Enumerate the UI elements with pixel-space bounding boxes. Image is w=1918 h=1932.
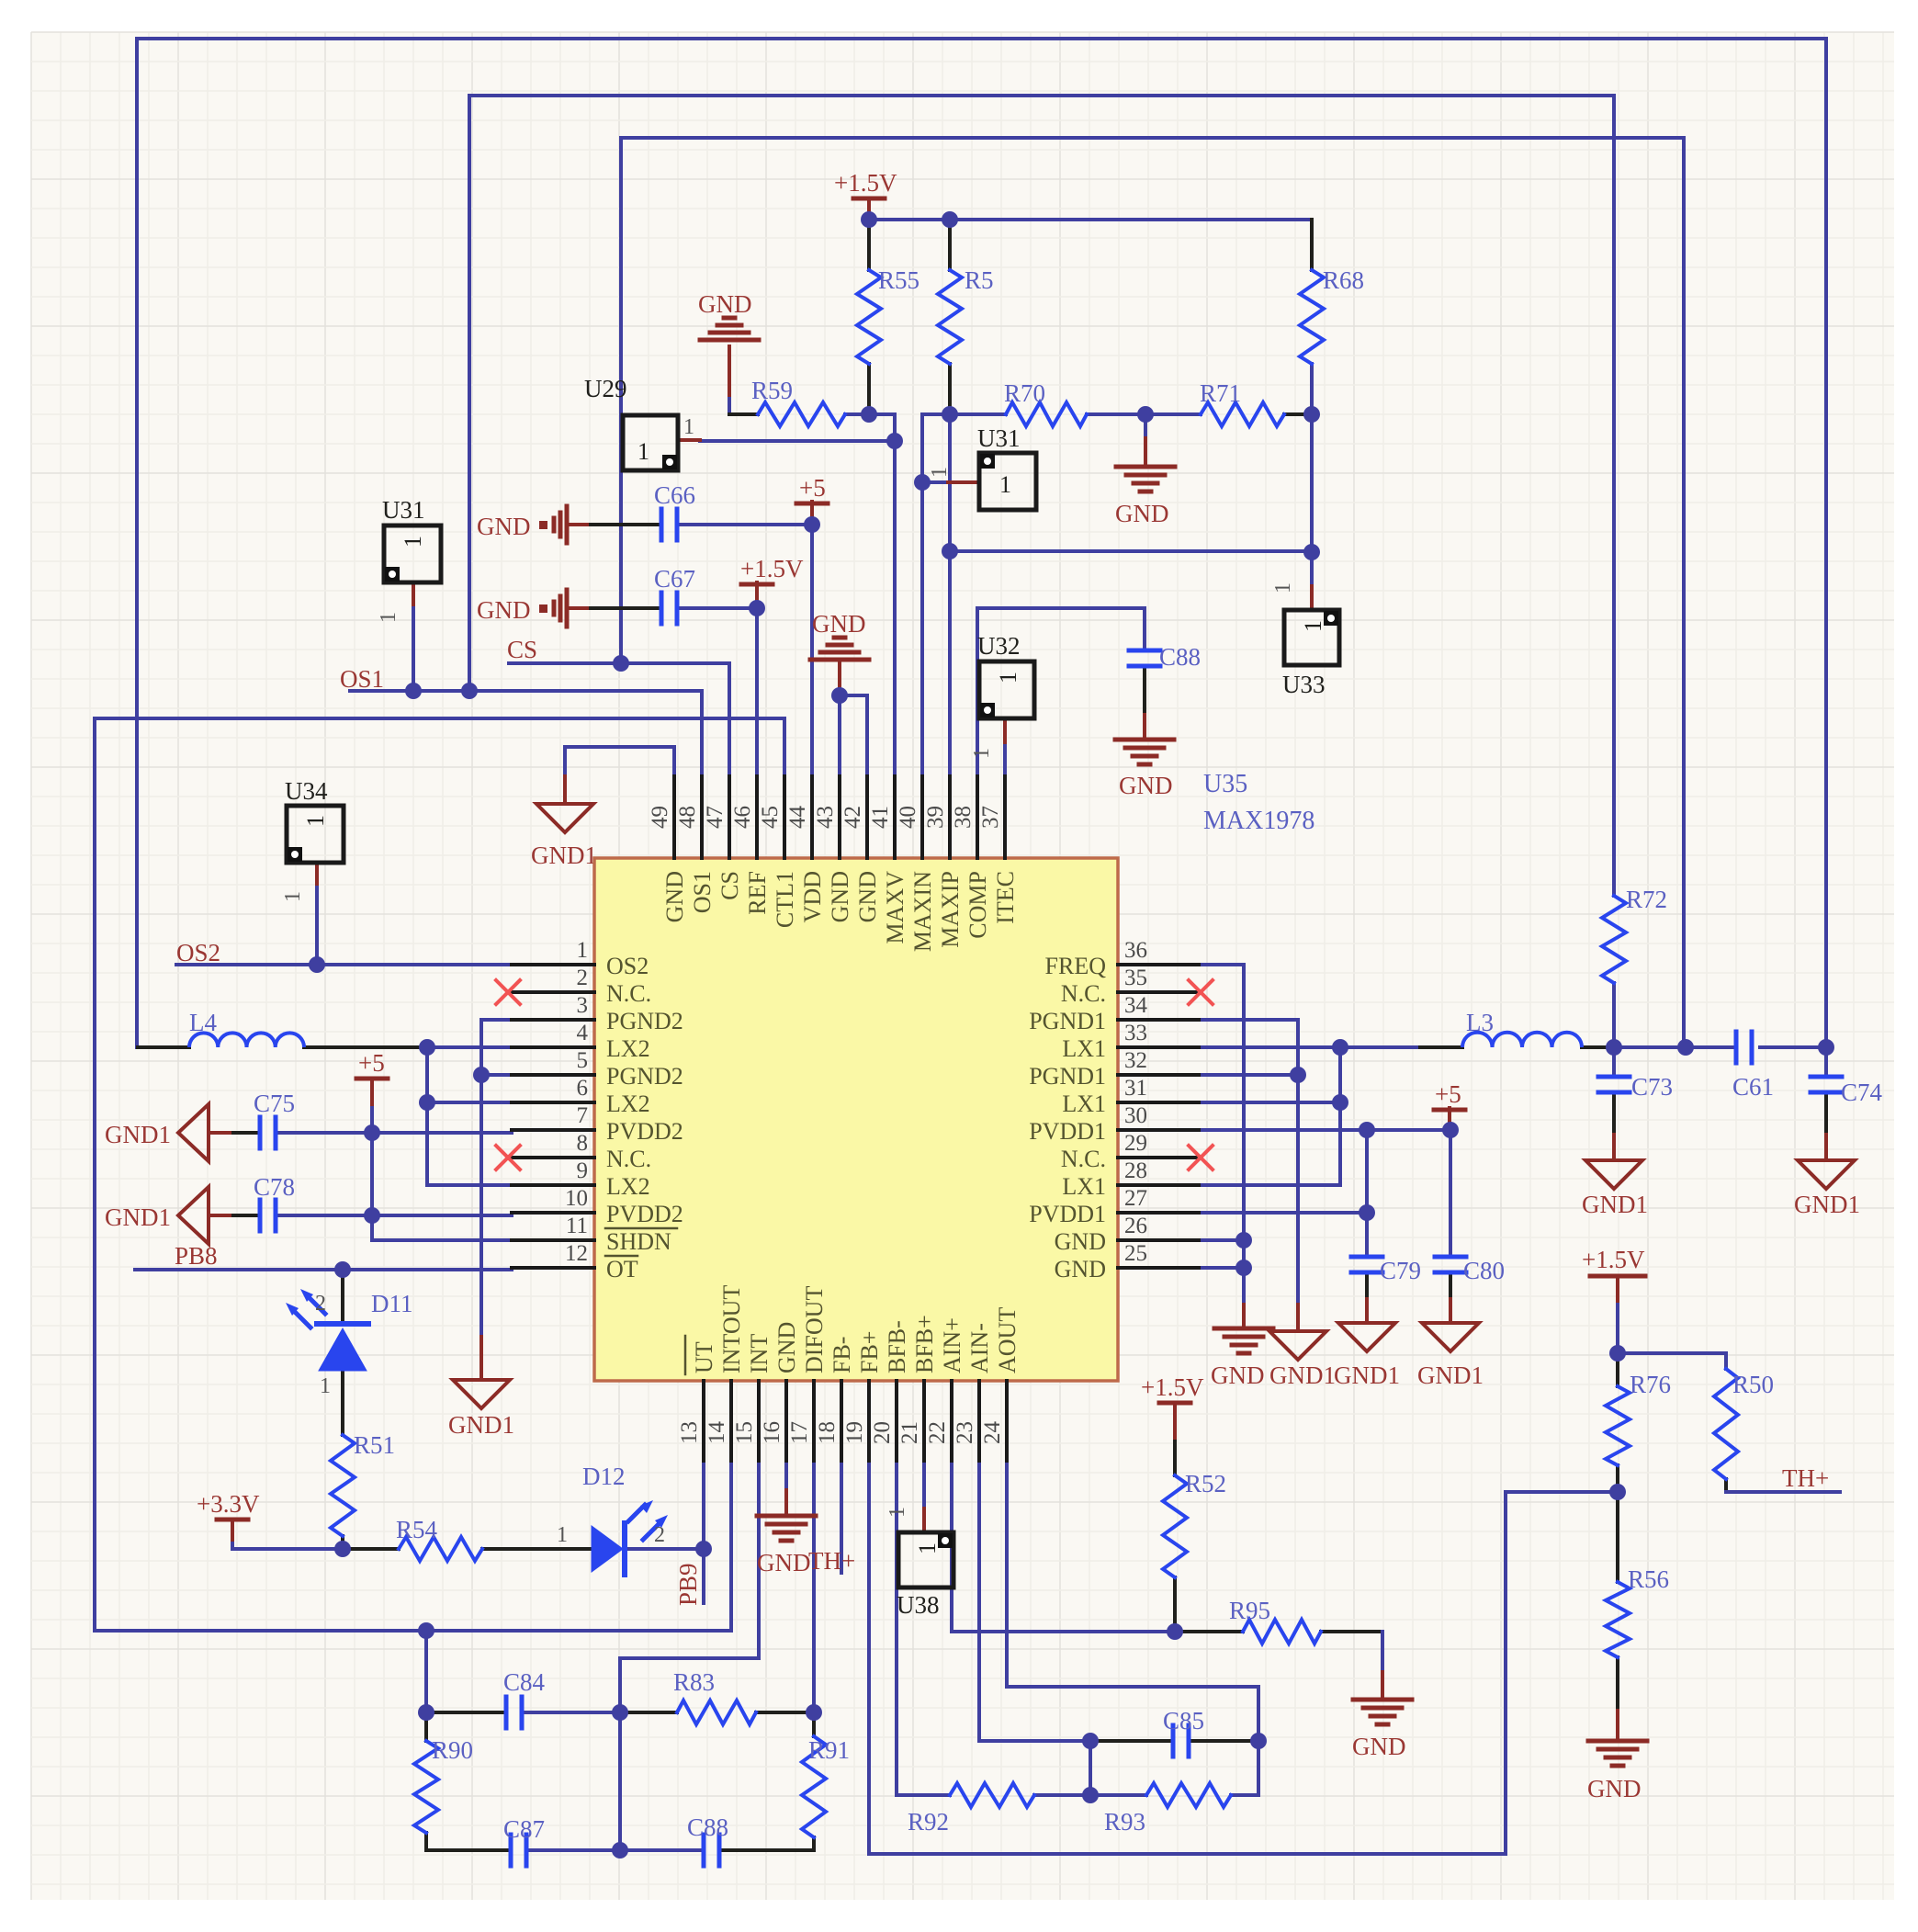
- svg-text:U33: U33: [1282, 671, 1326, 698]
- ground GND1 arrow below PGND2: [453, 1380, 510, 1408]
- svg-text:MAX1978: MAX1978: [1203, 807, 1314, 835]
- testpoint U29: [623, 415, 678, 470]
- wire R90/C84 branch: [424, 1631, 428, 1712]
- resistor R95: [1243, 1620, 1321, 1644]
- wire FB+ pin19 to TH node: [869, 1461, 1618, 1854]
- svg-text:C67: C67: [654, 565, 695, 593]
- svg-text:INTOUT: INTOUT: [718, 1285, 745, 1373]
- capacitor C61: [1734, 1032, 1739, 1063]
- svg-text:REF: REF: [744, 871, 771, 915]
- svg-text:GND: GND: [1055, 1256, 1106, 1282]
- junction at (464,1775): [418, 1622, 434, 1639]
- svg-text:FB-: FB-: [829, 1337, 855, 1373]
- svg-text:N.C.: N.C.: [606, 980, 651, 1007]
- svg-text:D11: D11: [371, 1290, 413, 1317]
- svg-text:OT: OT: [606, 1256, 638, 1282]
- junction at (405,1323): [364, 1207, 380, 1224]
- wire FREQ pin36 to GND ladder: [1199, 965, 1244, 1305]
- svg-text:GND: GND: [1115, 500, 1169, 527]
- svg-text:1: 1: [281, 891, 305, 902]
- svg-text:GND: GND: [773, 1322, 800, 1373]
- wire net CS row to pin 47: [509, 663, 729, 776]
- svg-text:15: 15: [732, 1421, 757, 1444]
- svg-text:7: 7: [577, 1103, 589, 1128]
- wire R51 bottom lead: [341, 1536, 344, 1549]
- junction at (1988,1140): [1818, 1039, 1834, 1056]
- wire GND stem pin16: [784, 1461, 788, 1490]
- junction at (1370,1895): [1250, 1733, 1267, 1749]
- svg-text:R51: R51: [354, 1431, 395, 1459]
- svg-text:13: 13: [677, 1421, 702, 1444]
- svg-text:49: 49: [648, 806, 672, 829]
- svg-text:17: 17: [787, 1421, 812, 1444]
- svg-text:R55: R55: [878, 266, 920, 294]
- svg-text:43: 43: [813, 806, 838, 829]
- svg-text:U31: U31: [382, 496, 425, 524]
- resistor R93: [1146, 1783, 1231, 1807]
- svg-text:GND1: GND1: [1582, 1191, 1648, 1218]
- svg-text:GND1: GND1: [531, 842, 597, 869]
- junction at (1488,1320): [1359, 1204, 1375, 1221]
- wire net LX2 top-left loop: [137, 39, 1826, 1047]
- wire C75 row (+5 net): [209, 1131, 233, 1135]
- svg-text:1: 1: [999, 471, 1011, 498]
- svg-text:C85: C85: [1163, 1707, 1204, 1734]
- svg-text:INT: INT: [746, 1334, 773, 1373]
- wire R90 leads: [424, 1712, 428, 1741]
- junction at (1459,1200): [1332, 1094, 1348, 1111]
- wire GND stem above R59: [728, 346, 731, 395]
- svg-text:45: 45: [758, 806, 783, 829]
- svg-text:20: 20: [870, 1421, 895, 1444]
- resistor R59: [758, 402, 845, 426]
- svg-text:42: 42: [841, 806, 865, 829]
- svg-text:12: 12: [565, 1241, 588, 1266]
- svg-text:1: 1: [683, 415, 694, 439]
- svg-text:1: 1: [928, 467, 952, 478]
- svg-text:UT: UT: [691, 1341, 717, 1373]
- svg-text:9: 9: [577, 1158, 589, 1183]
- svg-text:SHDN: SHDN: [606, 1228, 671, 1255]
- svg-text:U31: U31: [977, 424, 1021, 452]
- wire +5 vertical to SHDN pin 11: [370, 1104, 374, 1133]
- wire U29 pin stub: [678, 438, 700, 442]
- wire LX1 bus pins 33/31/28: [1338, 1047, 1342, 1185]
- resistor R51: [331, 1435, 355, 1536]
- wire net OS2 row to pin 1: [176, 963, 512, 966]
- svg-text:1: 1: [377, 612, 401, 623]
- svg-text:U32: U32: [977, 632, 1021, 660]
- svg-text:18: 18: [815, 1421, 840, 1444]
- svg-text:48: 48: [675, 806, 700, 829]
- svg-text:GND1: GND1: [105, 1203, 171, 1231]
- capacitor C73: [1598, 1075, 1630, 1079]
- wire PGND1 pins 34/32 to GND1: [1199, 1020, 1298, 1305]
- svg-text:30: 30: [1124, 1103, 1147, 1128]
- svg-text:PGND1: PGND1: [1029, 1008, 1106, 1034]
- svg-text:PVDD1: PVDD1: [1029, 1118, 1106, 1145]
- resistor R91: [802, 1736, 826, 1837]
- svg-text:ITEC: ITEC: [992, 871, 1019, 924]
- capacitor C88 bottom: [702, 1835, 706, 1866]
- wire R72 lower lead: [1612, 983, 1616, 1047]
- junction at (450,752): [405, 683, 422, 699]
- svg-text:38: 38: [951, 806, 976, 829]
- svg-text:LX2: LX2: [606, 1173, 650, 1200]
- svg-text:27: 27: [1124, 1186, 1147, 1211]
- no-connect X pin 8: [496, 1146, 520, 1169]
- svg-text:25: 25: [1124, 1241, 1147, 1266]
- ground GND ladder pin16: [757, 1514, 816, 1519]
- wire U31a pin to OS1: [412, 604, 415, 691]
- svg-text:+1.5V: +1.5V: [1141, 1373, 1204, 1401]
- wire U29 pin to MAXV pin 41: [700, 439, 895, 443]
- wire DIFOUT pin17 vertical: [812, 1461, 816, 1712]
- svg-text:1: 1: [995, 672, 1021, 684]
- svg-text:22: 22: [925, 1421, 950, 1444]
- svg-text:1: 1: [577, 938, 589, 963]
- wire PGND2 bus pins 3/5 to GND1: [481, 1020, 512, 1337]
- wire R50 lead to TH+: [1724, 1479, 1728, 1492]
- svg-text:OS2: OS2: [176, 939, 220, 966]
- junction at (1413,1170): [1290, 1067, 1306, 1083]
- capacitor C79: [1351, 1255, 1382, 1260]
- svg-text:C88: C88: [1159, 643, 1201, 671]
- svg-text:N.C.: N.C.: [1061, 980, 1106, 1007]
- capacitor C75: [258, 1117, 263, 1148]
- svg-text:GND: GND: [1055, 1228, 1106, 1255]
- ground GND small symbol left of C67: [539, 604, 547, 613]
- resistor R72: [1602, 896, 1626, 983]
- wire net CTL1/INTOUT left loop: [95, 718, 784, 1631]
- wire D11 bottom lead to R51: [341, 1371, 344, 1435]
- wire VDD vertical to pin 44: [810, 525, 814, 776]
- svg-text:32: 32: [1124, 1048, 1147, 1073]
- wire LX1 row to L3: [1199, 1045, 1420, 1049]
- svg-text:35: 35: [1124, 966, 1147, 990]
- svg-text:R68: R68: [1323, 266, 1364, 294]
- resistor R68: [1300, 270, 1324, 364]
- power +1.5V above R52: [1159, 1401, 1190, 1406]
- resistor R71: [1201, 402, 1284, 426]
- resistor R90: [414, 1741, 438, 1833]
- ground GND1 arrow below C80: [1422, 1323, 1479, 1351]
- junction at (766,1686): [695, 1541, 712, 1557]
- junction at (464,1864): [418, 1704, 434, 1721]
- svg-text:23: 23: [953, 1421, 977, 1444]
- wire C67 row: [567, 606, 591, 610]
- no-connect X pin 35: [1189, 980, 1213, 1004]
- wire +5 stem right: [1448, 1108, 1451, 1130]
- wire C66 row: [567, 523, 591, 526]
- svg-text:PGND1: PGND1: [1029, 1063, 1106, 1090]
- no-connect X pin 29: [1189, 1146, 1213, 1169]
- svg-text:MAXV: MAXV: [882, 871, 908, 944]
- resistor R54: [399, 1537, 482, 1561]
- wire OT row (net PB8): [135, 1268, 512, 1271]
- junction at (1279,1776): [1167, 1623, 1183, 1640]
- junction at (511,752): [461, 683, 478, 699]
- ground GND ladder R56: [1588, 1739, 1647, 1744]
- testpoint U31 middle: [979, 453, 1036, 510]
- svg-text:R5: R5: [965, 266, 994, 294]
- wire C84 row: [426, 1711, 506, 1714]
- ground GND1 arrow below C74: [1798, 1160, 1855, 1189]
- svg-text:6: 6: [577, 1076, 589, 1101]
- junction at (405,1233): [364, 1124, 380, 1141]
- svg-text:C84: C84: [503, 1668, 546, 1696]
- wire C85 lower link: [1089, 1741, 1092, 1795]
- ground GND1 arrow below C73: [1585, 1160, 1642, 1189]
- ground GND1 arrow below C79: [1338, 1323, 1395, 1351]
- resistor R76: [1606, 1386, 1630, 1465]
- junction at (1354,1350): [1235, 1232, 1252, 1248]
- wire U33 pin stub: [1310, 552, 1314, 586]
- junction at (1247,451): [1137, 406, 1154, 423]
- wire R5 leads: [948, 220, 952, 270]
- svg-text:GND: GND: [477, 596, 531, 624]
- svg-text:4: 4: [577, 1021, 589, 1045]
- wire INT pin15 loop: [620, 1461, 759, 1850]
- svg-text:L4: L4: [189, 1009, 217, 1036]
- capacitor C84: [504, 1697, 509, 1728]
- junction at (524,1170): [473, 1067, 490, 1083]
- junction at (1579,1230): [1442, 1122, 1459, 1138]
- capacitor C74: [1811, 1075, 1842, 1079]
- wire R56 leads: [1616, 1492, 1619, 1582]
- junction at (373,1686): [334, 1541, 351, 1557]
- svg-text:+1.5V: +1.5V: [834, 169, 897, 197]
- wire R54 leads: [343, 1547, 399, 1551]
- svg-text:CS: CS: [716, 871, 743, 900]
- ground GND small symbol left of C66: [539, 521, 547, 529]
- svg-text:8: 8: [577, 1131, 589, 1156]
- svg-text:OS2: OS2: [606, 953, 649, 979]
- svg-text:11: 11: [566, 1214, 588, 1238]
- wire REF vertical to pin 46: [755, 608, 759, 776]
- wire R68 lead to MAXIP node: [1310, 220, 1314, 270]
- svg-text:46: 46: [730, 806, 755, 829]
- wire COMP loop to C88: [977, 608, 1145, 776]
- ground GND1 arrow PGND1: [1269, 1331, 1326, 1360]
- testpoint U32: [979, 661, 1034, 718]
- svg-text:+3.3V: +3.3V: [197, 1490, 260, 1518]
- svg-text:TH+: TH+: [1782, 1464, 1829, 1492]
- testpoint U33: [1284, 610, 1339, 665]
- svg-text:2: 2: [577, 966, 589, 990]
- junction at (1761,1624): [1609, 1484, 1626, 1500]
- wire R95 leads: [1175, 1630, 1243, 1633]
- svg-text:37: 37: [978, 806, 1003, 829]
- svg-text:24: 24: [980, 1421, 1005, 1445]
- ground GND below C88: [1115, 738, 1174, 742]
- svg-text:GND: GND: [812, 610, 866, 638]
- svg-text:33: 33: [1124, 1021, 1147, 1045]
- ground GND below R70/R71: [1116, 465, 1175, 469]
- wire R70 node to U31 pin / MAXIN pin 40: [920, 414, 924, 776]
- svg-text:2: 2: [315, 1292, 326, 1316]
- svg-text:R54: R54: [396, 1516, 438, 1543]
- ground GND ladder R95: [1353, 1698, 1412, 1702]
- svg-text:41: 41: [868, 806, 893, 829]
- svg-text:AOUT: AOUT: [994, 1307, 1021, 1373]
- wire C78 row: [209, 1214, 233, 1217]
- wire PVDD1 pin30 row: [1199, 1128, 1450, 1132]
- svg-text:R50: R50: [1732, 1371, 1774, 1398]
- capacitor C78: [258, 1200, 263, 1231]
- wire D11 top lead: [341, 1270, 344, 1323]
- junction at (676,722): [613, 655, 629, 672]
- wire net OS1 row to pin 48: [350, 691, 702, 776]
- svg-text:PGND2: PGND2: [606, 1063, 683, 1090]
- ground GND ladder FREQ/GND pins: [1214, 1327, 1273, 1331]
- resistor R52: [1163, 1475, 1187, 1577]
- svg-text:GND1: GND1: [105, 1121, 171, 1148]
- svg-text:R83: R83: [673, 1668, 715, 1696]
- svg-text:1: 1: [400, 536, 426, 548]
- junction at (675,2014): [612, 1842, 628, 1859]
- wire +1.5V stem right side: [1616, 1276, 1619, 1305]
- svg-text:34: 34: [1124, 993, 1148, 1018]
- svg-text:GND1: GND1: [1269, 1361, 1336, 1389]
- junction at (1034,239): [942, 211, 958, 228]
- svg-text:LX1: LX1: [1062, 1090, 1106, 1117]
- svg-text:R56: R56: [1628, 1565, 1669, 1593]
- svg-text:R70: R70: [1004, 379, 1045, 407]
- svg-text:R95: R95: [1229, 1597, 1270, 1624]
- resistor R70: [1006, 402, 1087, 426]
- wire GND pins 26/25 rows: [1199, 1238, 1244, 1242]
- wire R76 top node to R50: [1618, 1353, 1726, 1369]
- LED D11: [319, 1328, 367, 1371]
- svg-text:GND: GND: [661, 871, 688, 922]
- wire +5 stem at C66: [810, 502, 814, 525]
- ground GND1 arrow left of C75: [178, 1104, 209, 1161]
- svg-text:GND: GND: [827, 871, 853, 922]
- svg-text:FB+: FB+: [856, 1331, 883, 1373]
- svg-text:U38: U38: [897, 1591, 940, 1619]
- junction at (1757,1140): [1606, 1039, 1622, 1056]
- svg-text:R72: R72: [1626, 886, 1667, 913]
- svg-text:10: 10: [565, 1186, 588, 1211]
- svg-text:29: 29: [1124, 1131, 1147, 1156]
- junction at (1488,1230): [1359, 1122, 1375, 1138]
- junction at (974,480): [886, 433, 903, 449]
- junction at (824,662): [749, 600, 765, 616]
- wire L4 leads: [138, 1045, 189, 1049]
- svg-text:PVDD2: PVDD2: [606, 1118, 683, 1145]
- svg-text:N.C.: N.C.: [1061, 1146, 1106, 1172]
- junction at (1034,451): [942, 406, 958, 423]
- svg-text:LX2: LX2: [606, 1090, 650, 1117]
- junction at (465,1140): [419, 1039, 435, 1056]
- svg-text:+1.5V: +1.5V: [1582, 1246, 1645, 1273]
- wire R76 leads: [1616, 1353, 1619, 1386]
- svg-text:C87: C87: [503, 1815, 545, 1843]
- svg-text:C78: C78: [254, 1173, 295, 1201]
- power +5 above C66: [796, 502, 828, 506]
- svg-text:2: 2: [654, 1523, 665, 1547]
- svg-text:+1.5V: +1.5V: [740, 555, 804, 582]
- junction at (946,451): [861, 406, 877, 423]
- svg-text:1: 1: [320, 1374, 331, 1398]
- svg-text:GND1: GND1: [1794, 1191, 1860, 1218]
- testpoint U34: [287, 806, 344, 863]
- wire AIN+ pin22 to divider: [952, 1461, 1175, 1632]
- junction at (886,1864): [806, 1704, 822, 1721]
- svg-text:1: 1: [886, 1507, 909, 1518]
- svg-text:1: 1: [302, 815, 329, 827]
- svg-text:1: 1: [1300, 620, 1326, 632]
- wire GND symbol to pins 43/42: [838, 663, 841, 695]
- svg-text:1: 1: [914, 1542, 941, 1554]
- svg-text:36: 36: [1124, 938, 1147, 963]
- junction at (465,1200): [419, 1094, 435, 1111]
- wire C74 leads: [1824, 1047, 1828, 1077]
- wire R55 leads: [867, 220, 871, 270]
- svg-text:C73: C73: [1631, 1073, 1673, 1101]
- ground GND above R59 (inverted ladder): [724, 316, 735, 321]
- wire MAXIP vertical and branch to R68/U33: [948, 414, 952, 776]
- power +1.5V right: [1590, 1274, 1645, 1279]
- junction at (1835,1140): [1677, 1039, 1694, 1056]
- resistor R50: [1714, 1369, 1738, 1479]
- junction at (373,1382): [334, 1261, 351, 1278]
- svg-text:GND: GND: [1211, 1361, 1265, 1389]
- capacitor C80: [1435, 1255, 1466, 1260]
- svg-text:C79: C79: [1380, 1257, 1421, 1284]
- wire U38 pin to BFB+ pin21: [922, 1461, 926, 1508]
- svg-text:R76: R76: [1630, 1371, 1671, 1398]
- svg-text:+5: +5: [799, 474, 826, 502]
- IC U35 pin stubs: [512, 963, 594, 966]
- svg-text:D12: D12: [582, 1463, 626, 1490]
- svg-text:LX2: LX2: [606, 1035, 650, 1062]
- wire D12 cathode to pin13 net PB9: [626, 1547, 704, 1551]
- power +3.3V: [217, 1518, 248, 1522]
- svg-text:21: 21: [897, 1421, 922, 1444]
- power +1.5V above C67: [741, 582, 773, 587]
- ground GND1 arrow below pin 49: [536, 804, 593, 832]
- wire net OS1 second loop (to R72): [469, 96, 1614, 896]
- svg-text:AIN-: AIN-: [966, 1323, 993, 1373]
- wire AOUT pin24 loop: [1007, 1461, 1258, 1741]
- LED D12: [592, 1526, 623, 1572]
- svg-text:GND1: GND1: [448, 1411, 514, 1439]
- wire R52 leads: [1173, 1577, 1177, 1632]
- wire GND stem below R70/R71 junction: [1144, 414, 1147, 438]
- junction at (1187,1954): [1082, 1787, 1099, 1803]
- svg-text:R59: R59: [751, 377, 793, 404]
- testpoint U38: [898, 1532, 953, 1587]
- wire +3.3V stem and row: [231, 1520, 234, 1543]
- svg-text:1: 1: [557, 1523, 568, 1547]
- capacitor C88 top: [1129, 649, 1160, 653]
- junction at (1004,525): [914, 474, 931, 491]
- svg-text:1: 1: [970, 748, 994, 759]
- svg-text:39: 39: [923, 806, 948, 829]
- capacitor C85: [1171, 1725, 1176, 1757]
- svg-text:+5: +5: [1435, 1080, 1461, 1108]
- junction at (345,1050): [309, 956, 325, 973]
- svg-text:16: 16: [760, 1421, 784, 1444]
- svg-text:PB9: PB9: [674, 1563, 702, 1606]
- svg-text:CTL1: CTL1: [772, 871, 798, 928]
- wire net CS third loop (to LX1 node): [621, 138, 1684, 1047]
- wire R92/R93 row: [1034, 1793, 1146, 1797]
- svg-text:N.C.: N.C.: [606, 1146, 651, 1172]
- svg-text:R90: R90: [432, 1736, 473, 1764]
